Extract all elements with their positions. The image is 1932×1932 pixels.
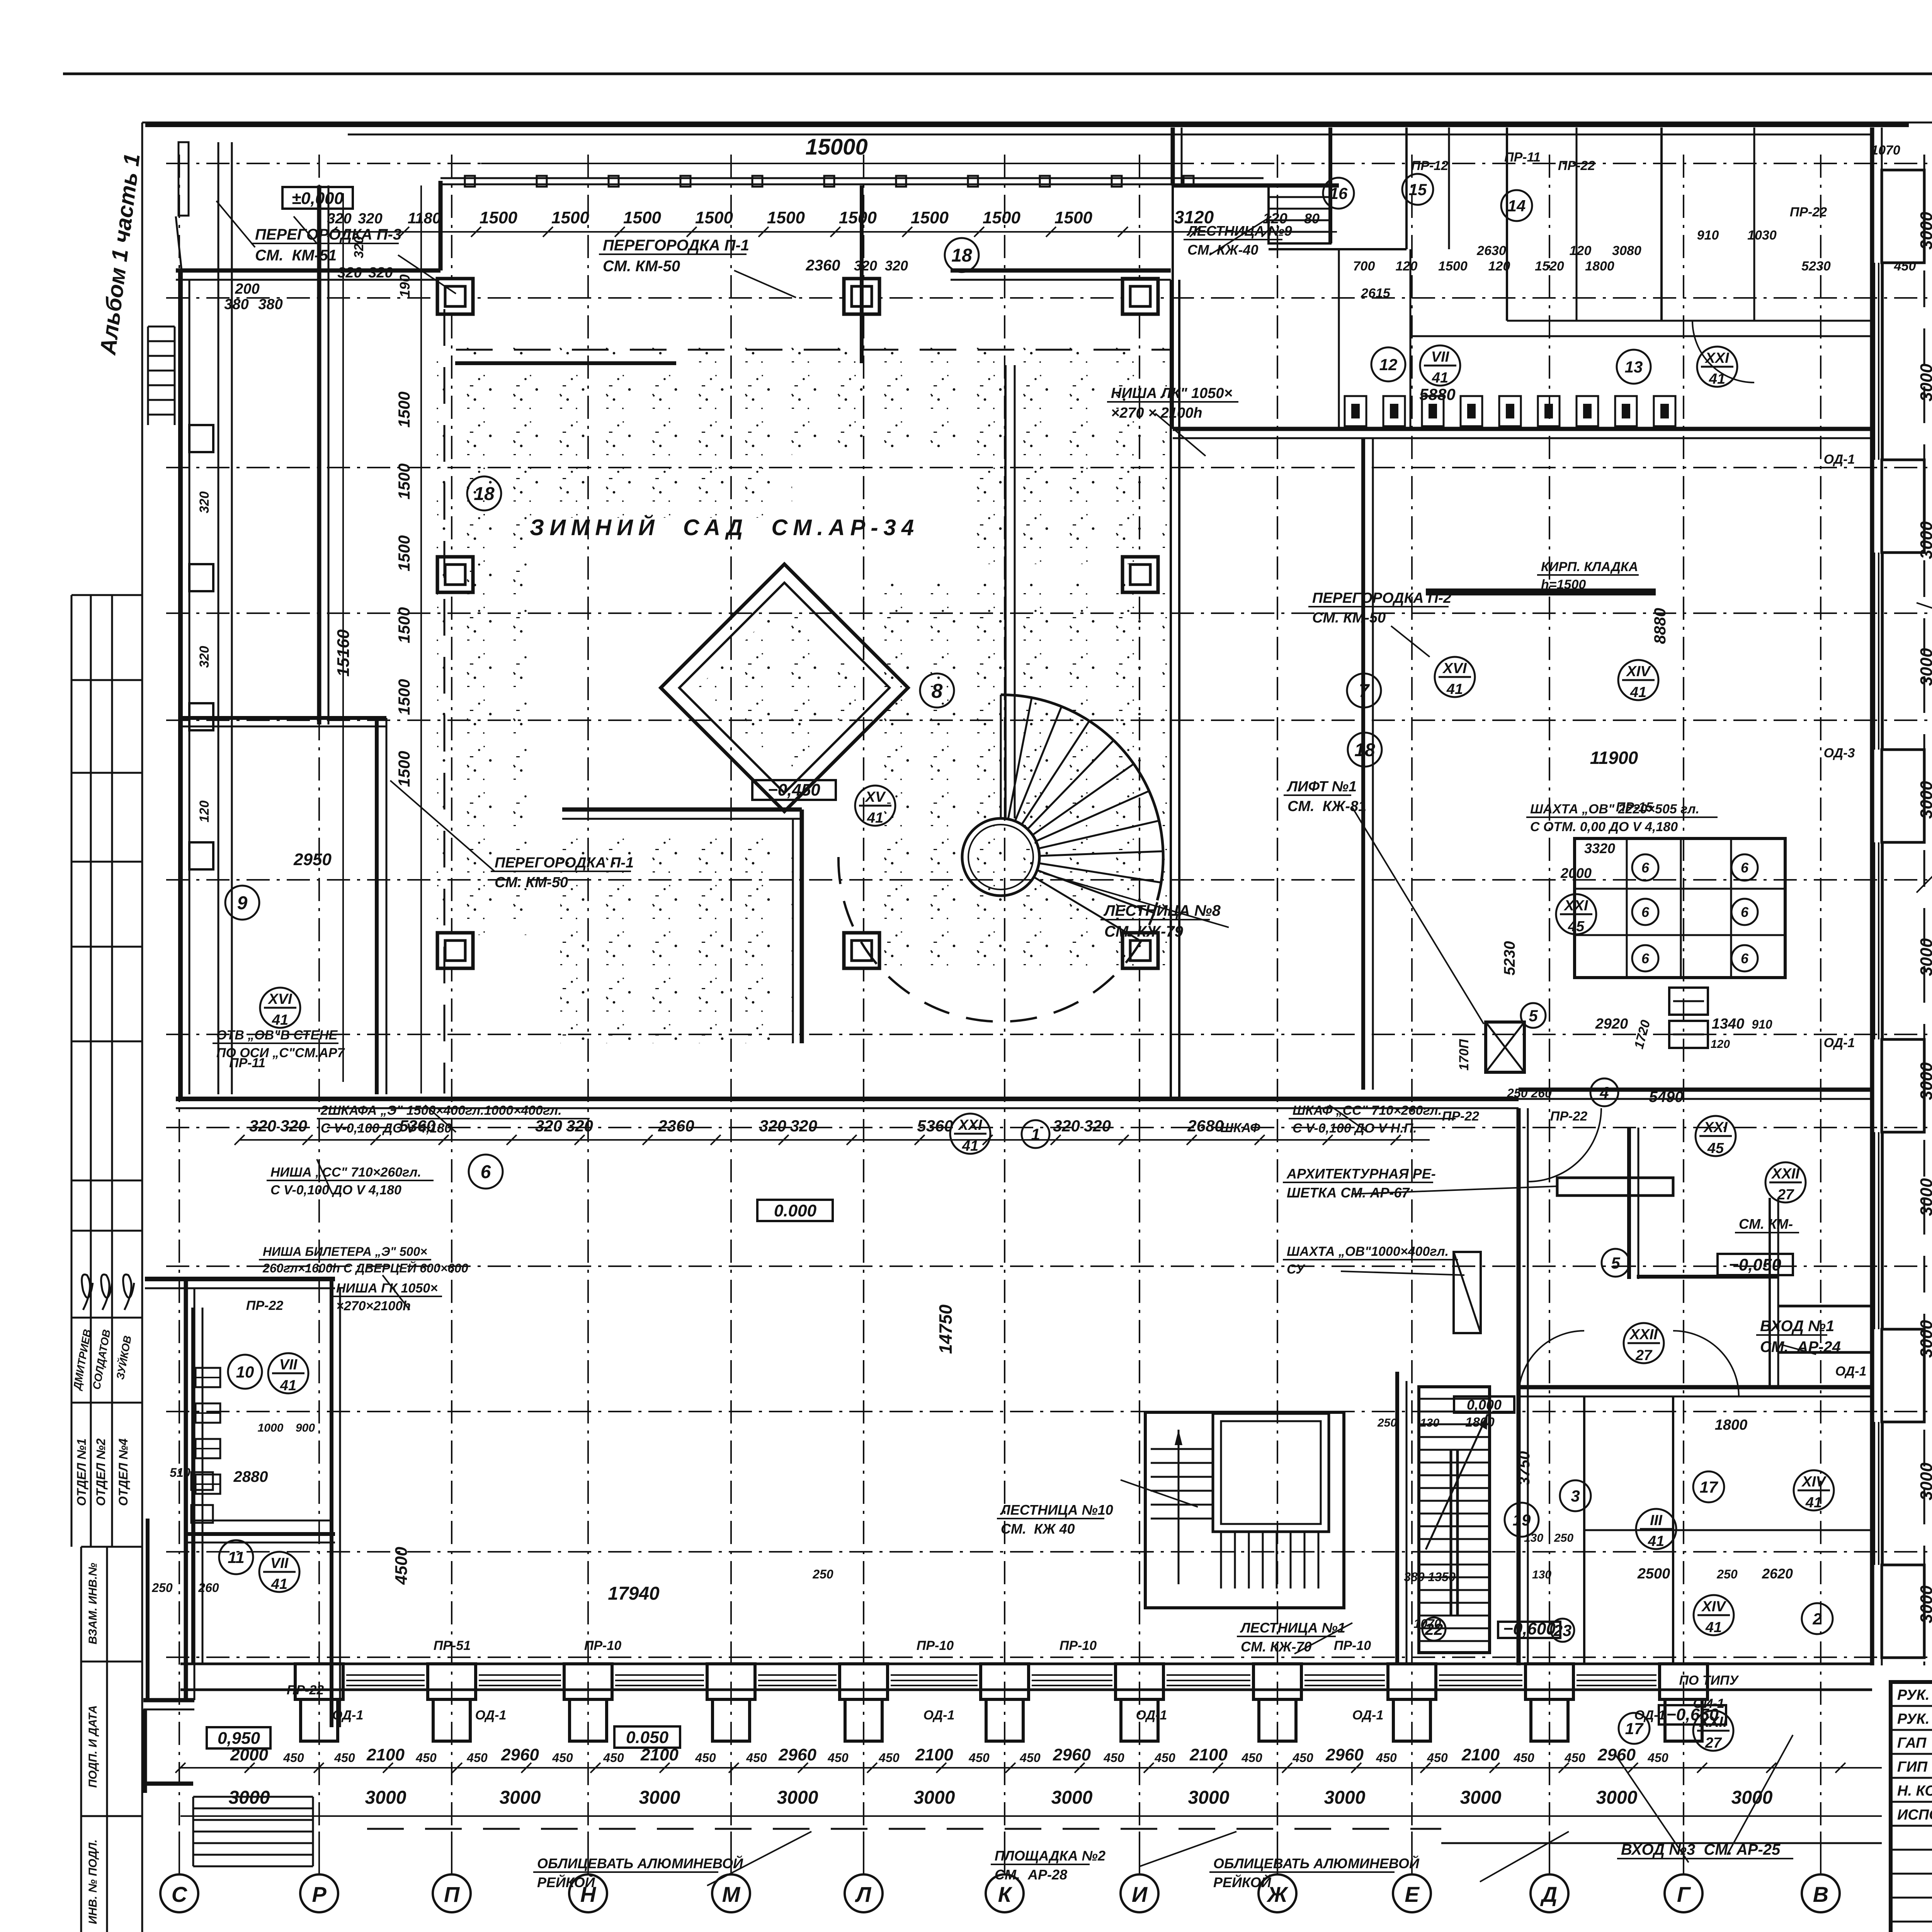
svg-text:0,000: 0,000 bbox=[1467, 1397, 1502, 1413]
svg-text:22: 22 bbox=[1425, 1620, 1443, 1638]
svg-text:XXI: XXI bbox=[1704, 350, 1730, 366]
svg-text:380: 380 bbox=[224, 296, 248, 313]
svg-text:1070: 1070 bbox=[1871, 143, 1900, 158]
dashed boundary inside winter garden bbox=[444, 309, 446, 1094]
kirp kladka wall bbox=[1426, 588, 1656, 595]
svg-text:130: 130 bbox=[1420, 1417, 1439, 1429]
svg-text:2960: 2960 bbox=[501, 1745, 539, 1764]
svg-text:3320: 3320 bbox=[1584, 840, 1615, 856]
top-left partition P-3 stub bbox=[179, 142, 189, 216]
svg-text:18: 18 bbox=[1354, 740, 1375, 760]
winter garden bottom wall bbox=[176, 1097, 1519, 1101]
svg-text:Д: Д bbox=[1540, 1882, 1557, 1906]
svg-text:СМ. КЖ-40: СМ. КЖ-40 bbox=[1187, 242, 1259, 258]
svg-text:XVI: XVI bbox=[1442, 660, 1467, 677]
svg-text:1500: 1500 bbox=[395, 751, 413, 787]
left dimension chain second line bbox=[420, 185, 422, 1094]
svg-text:1500: 1500 bbox=[767, 208, 805, 227]
svg-text:ОБЛИЦЕВАТЬ АЛЮМИНЕВОЙ: ОБЛИЦЕВАТЬ АЛЮМИНЕВОЙ bbox=[1213, 1855, 1420, 1871]
svg-text:450: 450 bbox=[1427, 1751, 1448, 1765]
svg-text:−0,050: −0,050 bbox=[1729, 1255, 1781, 1274]
svg-text:0.050: 0.050 bbox=[626, 1728, 669, 1747]
room 9 top wall bbox=[180, 716, 386, 720]
svg-text:И: И bbox=[1132, 1882, 1148, 1906]
svg-text:6: 6 bbox=[1641, 904, 1650, 920]
svg-text:СМ. КМ-50: СМ. КМ-50 bbox=[603, 258, 680, 275]
svg-text:320: 320 bbox=[197, 492, 212, 514]
svg-text:ПР-22: ПР-22 bbox=[1442, 1109, 1479, 1124]
svg-text:1500: 1500 bbox=[395, 463, 413, 499]
svg-text:1800: 1800 bbox=[1715, 1417, 1748, 1433]
svg-text:ОД-1: ОД-1 bbox=[1352, 1708, 1384, 1723]
svg-text:III: III bbox=[1650, 1512, 1663, 1529]
svg-text:СМ. КМ-51: СМ. КМ-51 bbox=[255, 247, 337, 264]
svg-text:41: 41 bbox=[271, 1576, 287, 1592]
small sanitary bubbles bbox=[1632, 854, 1658, 881]
svg-text:320: 320 bbox=[197, 646, 212, 668]
svg-text:450: 450 bbox=[1241, 1751, 1262, 1765]
svg-text:СМ. КМ-50: СМ. КМ-50 bbox=[1312, 610, 1386, 626]
svg-text:3000: 3000 bbox=[1731, 1787, 1773, 1808]
svg-text:НИША ГК 1050×: НИША ГК 1050× bbox=[336, 1281, 438, 1296]
svg-text:ОД-1: ОД-1 bbox=[1634, 1708, 1666, 1723]
svg-text:2880: 2880 bbox=[233, 1468, 268, 1485]
sanitary cluster lower fixtures bbox=[1669, 988, 1708, 1015]
svg-text:ГИП: ГИП bbox=[1897, 1759, 1928, 1775]
svg-text:РУК. АБ-1: РУК. АБ-1 bbox=[1897, 1687, 1932, 1703]
left margin stamp columns upper bbox=[71, 595, 73, 1547]
wall between cafe hall and lift zone bbox=[1361, 438, 1365, 1090]
svg-text:250 260: 250 260 bbox=[1507, 1086, 1552, 1100]
svg-text:ПР-51: ПР-51 bbox=[434, 1638, 471, 1653]
svg-text:ЛЕСТНИЦА №9: ЛЕСТНИЦА №9 bbox=[1186, 223, 1292, 239]
stipple floor patches bbox=[437, 348, 529, 935]
svg-text:В: В bbox=[1813, 1882, 1828, 1906]
svg-text:14750: 14750 bbox=[935, 1304, 956, 1354]
svg-text:2100: 2100 bbox=[915, 1745, 953, 1764]
svg-text:450: 450 bbox=[1513, 1751, 1534, 1765]
entrance zone left wall bbox=[1627, 1128, 1631, 1279]
svg-text:130: 130 bbox=[1532, 1568, 1551, 1581]
svg-text:РЕЙКОЙ: РЕЙКОЙ bbox=[537, 1874, 595, 1890]
svg-text:0.000: 0.000 bbox=[774, 1201, 817, 1220]
cafe block left wall bbox=[1171, 128, 1175, 185]
entrance nr1 walls bbox=[1777, 1305, 1872, 1308]
svg-text:250: 250 bbox=[1716, 1567, 1738, 1581]
svg-text:СМ. КЖ 40: СМ. КЖ 40 bbox=[1001, 1521, 1075, 1537]
svg-text:5230: 5230 bbox=[1501, 941, 1518, 976]
stair 1 bbox=[1395, 1372, 1399, 1665]
shaft OV 1000x400 bbox=[1454, 1252, 1481, 1333]
svg-text:1500: 1500 bbox=[395, 607, 413, 643]
cafe block extra partitions bbox=[1448, 128, 1450, 249]
svg-text:2100: 2100 bbox=[366, 1745, 405, 1764]
svg-text:7: 7 bbox=[1359, 681, 1370, 701]
svg-text:12: 12 bbox=[1379, 355, 1398, 374]
svg-text:ШАХТА „ОВ" 2220×505 гл.: ШАХТА „ОВ" 2220×505 гл. bbox=[1530, 802, 1699, 816]
svg-text:ЗИМНИЙ САД СМ.АР-34: ЗИМНИЙ САД СМ.АР-34 bbox=[530, 515, 919, 540]
svg-text:Г: Г bbox=[1677, 1882, 1691, 1906]
svg-text:41: 41 bbox=[280, 1378, 296, 1394]
svg-text:СМ. КЖ-81: СМ. КЖ-81 bbox=[1287, 798, 1366, 815]
svg-text:6: 6 bbox=[1741, 904, 1749, 920]
room 9 right wall bbox=[375, 718, 379, 1094]
svg-text:1500: 1500 bbox=[395, 535, 413, 571]
svg-text:ПО ТИПУ: ПО ТИПУ bbox=[1679, 1673, 1739, 1688]
svg-text:ШАХТА „ОВ"1000×400гл.: ШАХТА „ОВ"1000×400гл. bbox=[1287, 1244, 1449, 1259]
svg-text:320: 320 bbox=[358, 211, 382, 227]
svg-text:ВХОД №3 СМ. АР-25: ВХОД №3 СМ. АР-25 bbox=[1621, 1841, 1781, 1858]
svg-text:450: 450 bbox=[552, 1751, 573, 1765]
svg-text:3080: 3080 bbox=[1612, 243, 1641, 258]
svg-text:НИША БИЛЕТЕРА „Э" 500×: НИША БИЛЕТЕРА „Э" 500× bbox=[263, 1245, 427, 1259]
svg-text:ОД-1: ОД-1 bbox=[475, 1708, 507, 1723]
svg-text:3000: 3000 bbox=[365, 1787, 406, 1808]
svg-text:41: 41 bbox=[1630, 684, 1646, 701]
svg-text:3000: 3000 bbox=[1917, 212, 1932, 250]
svg-text:3000: 3000 bbox=[1917, 364, 1932, 401]
svg-text:XV: XV bbox=[865, 789, 886, 805]
left wall niches bbox=[189, 425, 213, 452]
svg-text:27: 27 bbox=[1705, 1735, 1722, 1751]
svg-text:910: 910 bbox=[1697, 228, 1719, 243]
left outer wall of building bbox=[178, 270, 183, 1099]
left margin stamp columns lower bbox=[80, 1547, 82, 1932]
door swing arcs bbox=[1519, 1331, 1584, 1396]
building top outer wall bbox=[145, 122, 1909, 127]
svg-text:XXI: XXI bbox=[1563, 898, 1588, 914]
svg-text:3000: 3000 bbox=[1324, 1787, 1366, 1808]
horizontal row grid lines bbox=[166, 163, 1932, 164]
svg-text:27: 27 bbox=[1635, 1347, 1653, 1364]
svg-text:260гл×1600h С ДВЕРЦЕЙ 600×600: 260гл×1600h С ДВЕРЦЕЙ 600×600 bbox=[262, 1261, 468, 1275]
svg-text:900: 900 bbox=[296, 1422, 315, 1434]
svg-text:450: 450 bbox=[603, 1751, 624, 1765]
svg-text:3000: 3000 bbox=[1051, 1787, 1093, 1808]
svg-text:АРХИТЕКТУРНАЯ РЕ-: АРХИТЕКТУРНАЯ РЕ- bbox=[1286, 1166, 1436, 1182]
svg-text:Л: Л bbox=[855, 1882, 872, 1906]
svg-text:5490: 5490 bbox=[1649, 1088, 1684, 1105]
svg-text:СМ. КМ-: СМ. КМ- bbox=[1739, 1216, 1793, 1232]
svg-text:19: 19 bbox=[1513, 1511, 1531, 1529]
svg-text:h=1500: h=1500 bbox=[1541, 577, 1586, 592]
svg-text:320: 320 bbox=[249, 1117, 276, 1135]
svg-text:2360: 2360 bbox=[658, 1117, 694, 1135]
exterior stair top-left bbox=[148, 326, 175, 328]
svg-text:3000: 3000 bbox=[229, 1787, 270, 1808]
svg-text:ОТДЕЛ №1: ОТДЕЛ №1 bbox=[75, 1439, 88, 1506]
exterior steps bottom-left bbox=[193, 1796, 313, 1798]
svg-text:5360: 5360 bbox=[917, 1117, 953, 1135]
svg-text:450: 450 bbox=[1564, 1751, 1585, 1765]
svg-text:450: 450 bbox=[1154, 1751, 1175, 1765]
svg-text:1500: 1500 bbox=[395, 679, 413, 715]
svg-text:3000: 3000 bbox=[1917, 1062, 1932, 1100]
cafe block bottom wall bbox=[1519, 1088, 1872, 1092]
top-left corner corridor wall bbox=[176, 269, 440, 273]
svg-text:ПР-22: ПР-22 bbox=[1790, 205, 1827, 219]
svg-text:СМ. КМ-50: СМ. КМ-50 bbox=[495, 874, 568, 891]
svg-text:6: 6 bbox=[1641, 860, 1650, 876]
svg-text:8880: 8880 bbox=[1651, 608, 1669, 644]
svg-text:×270 × 2100h: ×270 × 2100h bbox=[1111, 405, 1202, 421]
svg-text:41: 41 bbox=[272, 1012, 288, 1028]
svg-text:XXII: XXII bbox=[1699, 1714, 1728, 1730]
svg-text:ПР-22: ПР-22 bbox=[246, 1298, 283, 1313]
room number bubbles bbox=[945, 238, 979, 272]
svg-text:×270×2100h: ×270×2100h bbox=[336, 1299, 411, 1313]
svg-text:910: 910 bbox=[1752, 1017, 1772, 1031]
svg-text:РУК. КБ-1: РУК. КБ-1 bbox=[1897, 1711, 1932, 1727]
svg-text:45: 45 bbox=[1707, 1140, 1724, 1156]
svg-text:41: 41 bbox=[867, 810, 883, 826]
svg-text:320: 320 bbox=[854, 258, 877, 274]
svg-text:5880: 5880 bbox=[1419, 385, 1455, 403]
svg-text:НИША ЛК" 1050×: НИША ЛК" 1050× bbox=[1111, 385, 1233, 401]
svg-text:VII: VII bbox=[279, 1357, 298, 1373]
garden-cafe boundary wall bbox=[1170, 280, 1172, 1099]
bottom grid letter bubbles bbox=[179, 1832, 180, 1875]
title block outer frame bbox=[1891, 1682, 1932, 1932]
svg-text:ОД-1: ОД-1 bbox=[1835, 1364, 1867, 1379]
svg-text:1800: 1800 bbox=[1585, 259, 1614, 274]
svg-text:2000: 2000 bbox=[1560, 865, 1592, 881]
svg-text:С V-0,100 ДО V Н.П.: С V-0,100 ДО V Н.П. bbox=[1293, 1121, 1417, 1136]
svg-text:3000: 3000 bbox=[1917, 521, 1932, 559]
svg-text:2100: 2100 bbox=[1461, 1745, 1500, 1764]
svg-text:1520: 1520 bbox=[1535, 259, 1564, 274]
svg-text:ПР-10: ПР-10 bbox=[1060, 1638, 1097, 1653]
svg-text:XXI: XXI bbox=[1703, 1119, 1728, 1136]
svg-text:15000: 15000 bbox=[805, 134, 867, 160]
svg-text:320: 320 bbox=[327, 211, 351, 227]
svg-text:ПЕРЕГОРОДКА П-2: ПЕРЕГОРОДКА П-2 bbox=[1312, 590, 1451, 606]
svg-text:17: 17 bbox=[1700, 1478, 1718, 1496]
svg-text:3: 3 bbox=[1571, 1487, 1580, 1505]
level mark boxes bbox=[282, 187, 353, 209]
svg-text:5230: 5230 bbox=[1801, 259, 1831, 274]
top dimension chain bbox=[332, 231, 1337, 233]
svg-text:15: 15 bbox=[1409, 180, 1427, 199]
cafe hall wall (room 7 top) bbox=[1173, 427, 1872, 431]
svg-text:ПР-22: ПР-22 bbox=[1558, 158, 1595, 173]
svg-text:ПР-12: ПР-12 bbox=[1411, 158, 1448, 173]
svg-text:С: С bbox=[172, 1882, 188, 1906]
svg-text:450: 450 bbox=[1103, 1751, 1124, 1765]
svg-text:ПР-11: ПР-11 bbox=[229, 1056, 265, 1070]
svg-text:2100: 2100 bbox=[1189, 1745, 1228, 1764]
svg-text:ПЛОЩАДКА №2: ПЛОЩАДКА №2 bbox=[995, 1848, 1105, 1864]
svg-text:XIV: XIV bbox=[1701, 1599, 1726, 1615]
rooms 10-11 divider wall bbox=[186, 1532, 335, 1536]
svg-text:ОД-1: ОД-1 bbox=[1136, 1708, 1167, 1723]
svg-text:1500: 1500 bbox=[395, 391, 413, 427]
cafe small room partitions top bbox=[1405, 128, 1408, 249]
svg-text:27: 27 bbox=[1777, 1187, 1794, 1203]
svg-text:1500: 1500 bbox=[911, 208, 949, 227]
svg-text:41: 41 bbox=[1705, 1619, 1722, 1636]
svg-text:−0,600: −0,600 bbox=[1503, 1619, 1556, 1638]
svg-text:130: 130 bbox=[1524, 1532, 1543, 1544]
columns of winter garden bbox=[437, 279, 473, 314]
svg-text:Р: Р bbox=[312, 1882, 327, 1906]
svg-text:ПР-11: ПР-11 bbox=[1504, 150, 1541, 165]
bottom wall pilasters bbox=[295, 1664, 343, 1699]
svg-text:ВЗАМ. ИНВ.№: ВЗАМ. ИНВ.№ bbox=[87, 1563, 99, 1644]
interior heavy partition walls around garden bbox=[562, 808, 802, 812]
svg-text:510: 510 bbox=[170, 1466, 190, 1480]
svg-text:120: 120 bbox=[1570, 243, 1592, 258]
svg-text:320: 320 bbox=[1053, 1117, 1080, 1135]
svg-text:450: 450 bbox=[878, 1751, 900, 1765]
svg-text:80: 80 bbox=[1304, 211, 1320, 226]
svg-text:±0,000: ±0,000 bbox=[292, 189, 344, 208]
svg-text:41: 41 bbox=[1805, 1495, 1822, 1511]
svg-text:11: 11 bbox=[228, 1548, 245, 1566]
svg-text:М: М bbox=[722, 1882, 741, 1906]
svg-text:ОД-1: ОД-1 bbox=[332, 1708, 364, 1723]
svg-text:3000: 3000 bbox=[639, 1787, 680, 1808]
svg-text:НИША „СС" 710×260гл.: НИША „СС" 710×260гл. bbox=[270, 1165, 421, 1180]
svg-text:3000: 3000 bbox=[1917, 1585, 1932, 1623]
svg-text:3000: 3000 bbox=[1917, 648, 1932, 686]
svg-text:2960: 2960 bbox=[778, 1745, 816, 1764]
lower-left inner wall bbox=[191, 1308, 195, 1664]
svg-text:ИСПОЛН: ИСПОЛН bbox=[1897, 1807, 1932, 1823]
svg-text:ГАП: ГАП bbox=[1897, 1735, 1927, 1751]
svg-text:ОТДЕЛ №4: ОТДЕЛ №4 bbox=[116, 1438, 130, 1506]
svg-text:ШКАФ: ШКАФ bbox=[1220, 1121, 1260, 1135]
right wall window lines between bumps bbox=[1874, 263, 1875, 460]
svg-text:450: 450 bbox=[746, 1751, 767, 1765]
svg-text:XVI: XVI bbox=[267, 991, 293, 1007]
svg-text:3000: 3000 bbox=[1917, 1178, 1932, 1216]
svg-text:ШКАФ „СС" 710×260гл.: ШКАФ „СС" 710×260гл. bbox=[1293, 1103, 1442, 1118]
svg-text:450: 450 bbox=[334, 1751, 355, 1765]
svg-text:VII: VII bbox=[270, 1555, 289, 1571]
svg-text:6: 6 bbox=[481, 1162, 491, 1182]
right outer wall bbox=[1870, 128, 1874, 1665]
svg-text:2920: 2920 bbox=[1595, 1016, 1628, 1032]
svg-text:450: 450 bbox=[283, 1751, 304, 1765]
svg-text:3000: 3000 bbox=[1917, 938, 1932, 976]
architectural grille element bbox=[1557, 1178, 1673, 1196]
svg-text:П: П bbox=[444, 1882, 460, 1906]
svg-text:1340: 1340 bbox=[1712, 1016, 1745, 1032]
svg-text:3000: 3000 bbox=[777, 1787, 818, 1808]
svg-text:250: 250 bbox=[1554, 1532, 1573, 1544]
drawing area frame top border bbox=[142, 122, 1932, 124]
svg-text:ПР-10: ПР-10 bbox=[584, 1638, 621, 1653]
svg-text:450: 450 bbox=[1894, 259, 1916, 274]
svg-text:2360: 2360 bbox=[806, 257, 840, 274]
svg-text:КИРП. КЛАДКА: КИРП. КЛАДКА bbox=[1541, 560, 1638, 574]
svg-text:18: 18 bbox=[951, 245, 972, 266]
svg-text:РЕЙКОЙ: РЕЙКОЙ bbox=[1213, 1874, 1272, 1890]
stair zone texts bbox=[1454, 1396, 1514, 1413]
svg-text:1500: 1500 bbox=[480, 208, 517, 227]
svg-text:ПР-22: ПР-22 bbox=[287, 1683, 324, 1697]
svg-text:ОД-3: ОД-3 bbox=[1824, 746, 1855, 760]
partition P-3 vertical double (closets) bbox=[218, 142, 219, 1094]
wall on axis P (winter garden left boundary) bbox=[317, 185, 321, 724]
diamond planter in winter garden bbox=[661, 564, 908, 811]
svg-text:320: 320 bbox=[280, 1117, 307, 1135]
svg-text:Е: Е bbox=[1405, 1882, 1420, 1906]
svg-text:3750: 3750 bbox=[1516, 1451, 1533, 1486]
svg-text:450: 450 bbox=[827, 1751, 849, 1765]
svg-text:1500: 1500 bbox=[983, 208, 1020, 227]
svg-text:320: 320 bbox=[337, 265, 362, 281]
svg-text:2960: 2960 bbox=[1325, 1745, 1364, 1764]
svg-text:3000: 3000 bbox=[1188, 1787, 1230, 1808]
svg-text:1500: 1500 bbox=[551, 208, 589, 227]
svg-text:450: 450 bbox=[1292, 1751, 1313, 1765]
svg-text:С V-0,100 ДО V 4,180: С V-0,100 ДО V 4,180 bbox=[321, 1121, 452, 1136]
svg-text:17940: 17940 bbox=[608, 1583, 660, 1604]
svg-text:ЛЕСТНИЦА №10: ЛЕСТНИЦА №10 bbox=[1000, 1502, 1113, 1518]
svg-text:ВХОД №1: ВХОД №1 bbox=[1760, 1318, 1834, 1335]
svg-text:5: 5 bbox=[1529, 1007, 1538, 1025]
svg-text:1500: 1500 bbox=[1054, 208, 1092, 227]
svg-text:1500: 1500 bbox=[839, 208, 877, 227]
svg-text:3000: 3000 bbox=[1460, 1787, 1502, 1808]
svg-text:СМ. КЖ-70: СМ. КЖ-70 bbox=[1241, 1639, 1312, 1655]
svg-text:3000: 3000 bbox=[1596, 1787, 1638, 1808]
svg-text:8: 8 bbox=[932, 680, 943, 702]
wall under spiral stair bbox=[1004, 365, 1007, 818]
svg-text:450: 450 bbox=[1019, 1751, 1041, 1765]
svg-text:ИНВ. № ПОДЛ.: ИНВ. № ПОДЛ. bbox=[87, 1839, 99, 1924]
svg-text:XXI: XXI bbox=[957, 1117, 983, 1133]
svg-text:ПР-10: ПР-10 bbox=[917, 1638, 954, 1653]
svg-text:1500: 1500 bbox=[1438, 259, 1468, 274]
svg-text:ПЕРЕГОРОДКА П-1: ПЕРЕГОРОДКА П-1 bbox=[495, 855, 634, 871]
left dimension chains bbox=[342, 193, 344, 1082]
svg-text:200: 200 bbox=[235, 281, 259, 297]
svg-text:450: 450 bbox=[968, 1751, 990, 1765]
svg-text:VII: VII bbox=[1431, 349, 1450, 365]
svg-text:2620: 2620 bbox=[1762, 1566, 1793, 1582]
svg-text:ШЕТКА СМ. АР-67: ШЕТКА СМ. АР-67 bbox=[1287, 1185, 1410, 1201]
svg-text:450: 450 bbox=[415, 1751, 437, 1765]
svg-text:41: 41 bbox=[962, 1138, 978, 1154]
svg-text:СМ. АР-24: СМ. АР-24 bbox=[1760, 1338, 1841, 1355]
svg-text:2680: 2680 bbox=[1187, 1117, 1223, 1135]
svg-text:2ШКАФА „Э" 1500×400гл.1000×400: 2ШКАФА „Э" 1500×400гл.1000×400гл. bbox=[320, 1103, 562, 1118]
svg-text:ПР-15: ПР-15 bbox=[1616, 800, 1653, 815]
stage wall strip bbox=[330, 1279, 333, 1727]
svg-text:120: 120 bbox=[197, 801, 212, 823]
svg-text:К: К bbox=[998, 1882, 1013, 1906]
svg-text:260: 260 bbox=[198, 1581, 219, 1595]
svg-text:41: 41 bbox=[1432, 370, 1448, 386]
svg-text:ОБЛИЦЕВАТЬ АЛЮМИНЕВОЙ: ОБЛИЦЕВАТЬ АЛЮМИНЕВОЙ bbox=[537, 1855, 743, 1871]
svg-text:0,950: 0,950 bbox=[218, 1729, 260, 1748]
svg-text:450: 450 bbox=[466, 1751, 488, 1765]
svg-text:6: 6 bbox=[1641, 951, 1650, 966]
central vestibule dimension row bbox=[240, 1139, 1430, 1141]
svg-text:120: 120 bbox=[1488, 259, 1510, 274]
svg-text:ОТВ „ОВ"В СТЕНЕ: ОТВ „ОВ"В СТЕНЕ bbox=[216, 1028, 338, 1043]
svg-text:ОИ-1: ОИ-1 bbox=[1693, 1696, 1724, 1711]
leader diagonal lines bbox=[398, 255, 456, 294]
svg-text:320: 320 bbox=[790, 1117, 817, 1135]
svg-text:3000: 3000 bbox=[1917, 1463, 1932, 1500]
svg-text:170П: 170П bbox=[1457, 1039, 1471, 1071]
svg-text:1: 1 bbox=[1031, 1125, 1040, 1143]
svg-text:2500: 2500 bbox=[1637, 1566, 1670, 1582]
